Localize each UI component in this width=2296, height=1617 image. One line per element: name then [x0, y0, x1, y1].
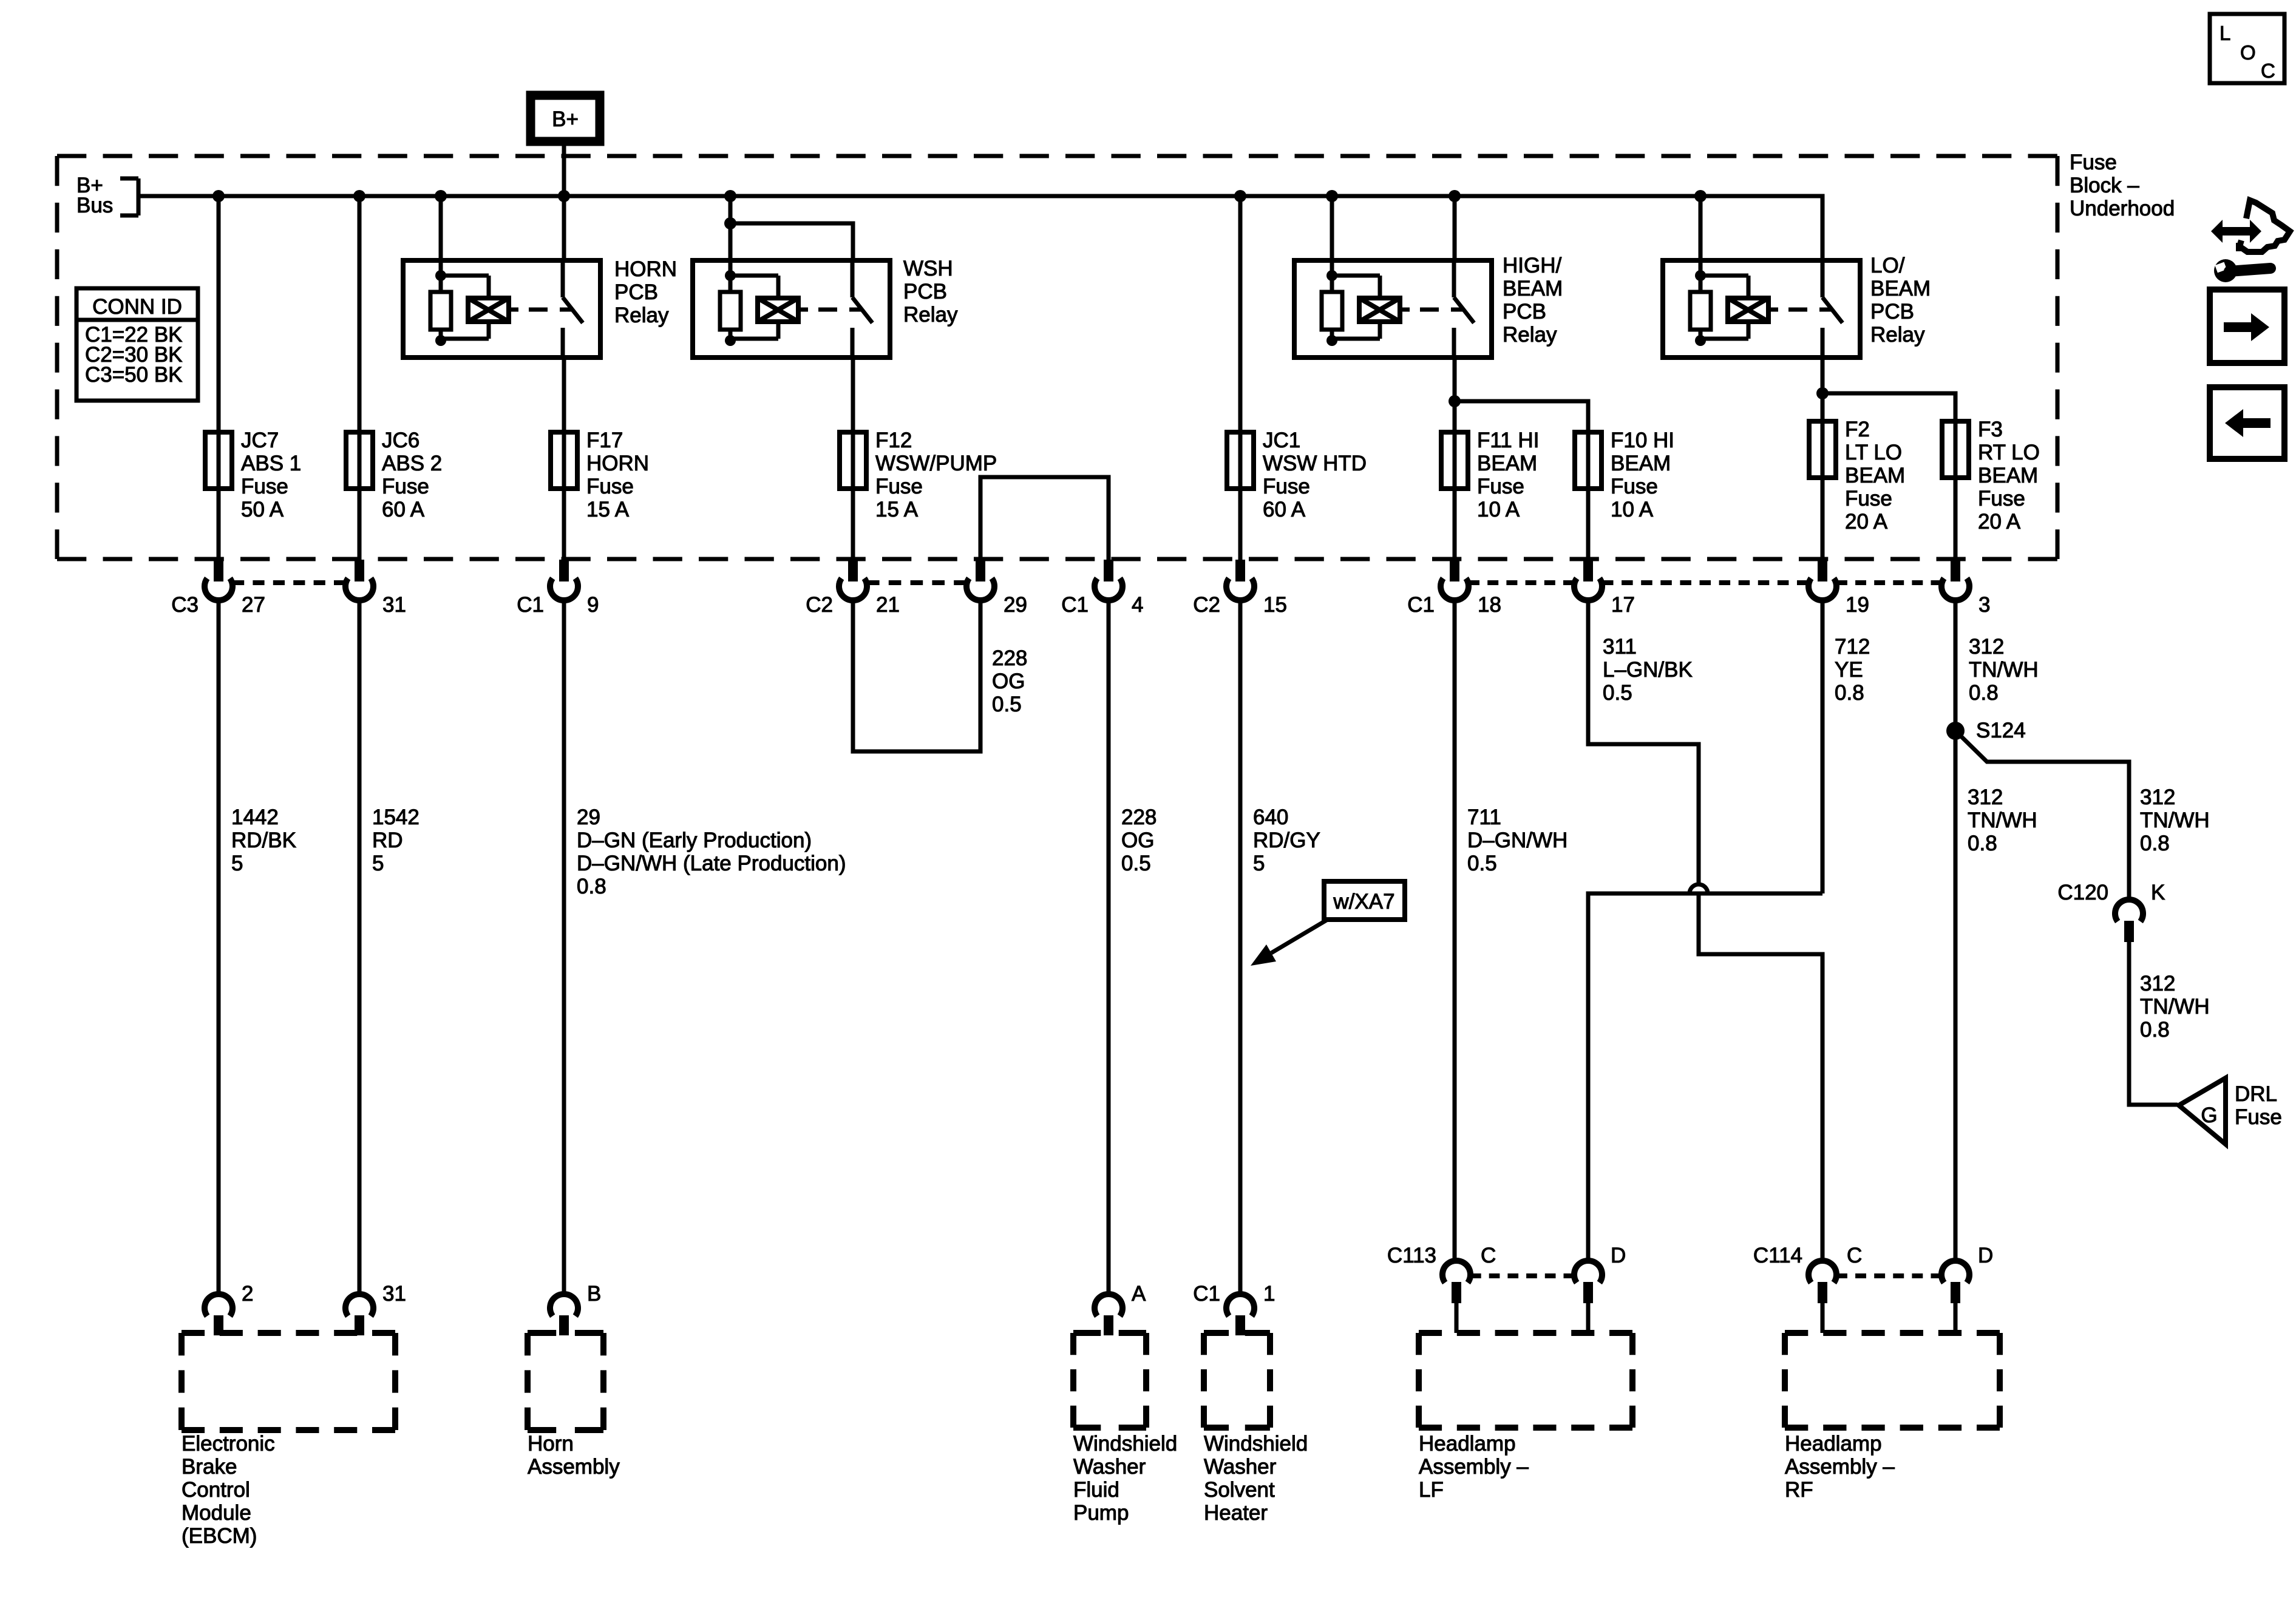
- CONN ID legend table: [76, 288, 198, 401]
- svg-text:Washer: Washer: [1204, 1455, 1277, 1479]
- svg-text:0.8: 0.8: [2140, 832, 2170, 855]
- svg-text:Heater: Heater: [1204, 1501, 1268, 1525]
- svg-text:0.5: 0.5: [1603, 681, 1632, 705]
- svg-text:1: 1: [1263, 1282, 1275, 1306]
- svg-text:0.5: 0.5: [1467, 852, 1497, 875]
- wire bus through JC6 fuse to pin 31: [358, 196, 362, 561]
- svg-text:312: 312: [1968, 785, 2003, 809]
- relay HORN PCB switch contacts: [561, 260, 565, 297]
- svg-text:JC6: JC6: [382, 429, 419, 452]
- svg-text:RD/GY: RD/GY: [1253, 829, 1320, 852]
- svg-text:Control: Control: [182, 1478, 250, 1502]
- component Headlamp Assembly RF (dashed box): [1785, 1330, 2000, 1336]
- svg-text:2: 2: [242, 1282, 253, 1306]
- wire HIGH BEAM relay switch through F11 fuse to pin 18: [1453, 358, 1457, 561]
- component Horn Assembly (dashed box): [528, 1330, 603, 1336]
- svg-text:Headlamp: Headlamp: [1785, 1432, 1882, 1456]
- svg-text:27: 27: [242, 593, 265, 617]
- svg-text:F17: F17: [586, 429, 623, 452]
- relay LO BEAM PCB coil winding: [1700, 274, 1748, 278]
- svg-text:HORN: HORN: [614, 257, 677, 281]
- svg-text:3: 3: [1978, 593, 1990, 617]
- wire bus to HORN relay coil: [439, 196, 443, 260]
- wire bus through JC7 fuse to pin 27: [217, 196, 221, 561]
- wire LO BEAM relay switch through F2 fuse to pin 19: [1821, 358, 1825, 561]
- svg-text:BEAM: BEAM: [1978, 464, 2038, 487]
- svg-text:OG: OG: [992, 670, 1025, 693]
- svg-text:312: 312: [2140, 785, 2175, 809]
- icon arrow left box: [2210, 387, 2284, 459]
- wire branch to F3 fuse: [1822, 393, 1955, 561]
- wire pin 31 to EBCM pin 31 (circuit 1542 RD): [358, 600, 362, 1294]
- svg-text:312: 312: [2140, 972, 2175, 995]
- svg-text:Horn: Horn: [528, 1432, 574, 1456]
- svg-text:60 A: 60 A: [1263, 498, 1306, 521]
- relay HORN PCB: outline: [403, 260, 600, 358]
- svg-text:311: 311: [1603, 635, 1637, 659]
- wire HORN relay switch through F17 fuse to pin 9: [562, 358, 566, 561]
- svg-text:60 A: 60 A: [382, 498, 425, 521]
- relay WSH PCB coil junction dots: [725, 270, 736, 281]
- svg-text:O: O: [2240, 41, 2256, 64]
- svg-text:D: D: [1978, 1244, 1993, 1267]
- option tag w/XA7: [1324, 881, 1405, 920]
- svg-text:BEAM: BEAM: [1845, 464, 1905, 487]
- component Windshield Washer Solvent Heater (dashed box): [1204, 1330, 1270, 1336]
- component Windshield Washer Fluid Pump (dashed box): [1073, 1330, 1146, 1336]
- wire pin 17 jog (circuit 311 L-GN/BK): [1588, 600, 1699, 886]
- junction LO BEAM output: [1816, 387, 1829, 399]
- wire bus to LO BEAM relay coil: [1699, 196, 1703, 260]
- svg-text:5: 5: [372, 852, 384, 875]
- connector pin 9 (C1): [559, 560, 569, 581]
- wire B+ bus (horizontal): [138, 196, 1822, 260]
- wire 311 hop over 712: [1690, 884, 1708, 893]
- relay WSH PCB switch contacts: [851, 260, 855, 297]
- svg-text:19: 19: [1846, 593, 1869, 617]
- svg-text:0.8: 0.8: [1968, 832, 1997, 855]
- wire pin 9 to horn assembly pin B (circuit 29 D-GN): [562, 600, 566, 1294]
- svg-text:D–GN/WH (Late Production): D–GN/WH (Late Production): [577, 852, 846, 875]
- svg-text:C2: C2: [1193, 593, 1220, 617]
- svg-text:C: C: [1481, 1244, 1496, 1267]
- svg-text:TN/WH: TN/WH: [1969, 658, 2039, 682]
- splice S124: [1946, 722, 1965, 740]
- svg-text:Brake: Brake: [182, 1455, 237, 1479]
- svg-text:PCB: PCB: [1870, 300, 1914, 324]
- relay HORN PCB coil winding: [441, 274, 489, 278]
- svg-text:228: 228: [992, 646, 1027, 670]
- component Headlamp Assembly LF (dashed box): [1419, 1330, 1632, 1336]
- svg-text:711: 711: [1467, 805, 1501, 829]
- connector pin 21 (C2): [848, 560, 858, 581]
- svg-text:15 A: 15 A: [875, 498, 919, 521]
- svg-text:RD: RD: [372, 829, 403, 852]
- svg-text:F12: F12: [875, 429, 912, 452]
- relay LO BEAM PCB switch contacts: [1821, 260, 1825, 297]
- svg-text:Module: Module: [182, 1501, 251, 1525]
- relay HIGH BEAM PCB coil junction dots: [1326, 270, 1337, 281]
- svg-text:20 A: 20 A: [1845, 510, 1888, 534]
- wire pin 27 to EBCM pin 2 (circuit 1442 RD/BK): [217, 600, 221, 1294]
- relay HIGH BEAM PCB switch contacts: [1452, 260, 1456, 297]
- svg-text:C1: C1: [1061, 593, 1089, 617]
- svg-text:ABS 1: ABS 1: [241, 452, 301, 475]
- svg-text:Fuse: Fuse: [1845, 487, 1892, 510]
- svg-text:B+: B+: [552, 107, 579, 131]
- wire branch to F10 fuse: [1455, 401, 1588, 561]
- relay HIGH BEAM PCB coil winding: [1332, 274, 1380, 278]
- svg-text:F3: F3: [1978, 418, 2003, 441]
- connector dashed bridge C3: [233, 580, 345, 585]
- svg-text:0.5: 0.5: [1121, 852, 1151, 875]
- wire pin 18 to LF headlamp pin C (circuit 711 D-GN/WH): [1453, 600, 1457, 1261]
- svg-text:C2: C2: [806, 593, 833, 617]
- svg-text:C1: C1: [517, 593, 544, 617]
- svg-text:Fluid: Fluid: [1073, 1478, 1119, 1502]
- svg-text:RD/BK: RD/BK: [231, 829, 296, 852]
- svg-text:Headlamp: Headlamp: [1419, 1432, 1516, 1456]
- connector pin 2 at component: [205, 1294, 233, 1316]
- svg-text:DRL: DRL: [2235, 1082, 2277, 1106]
- svg-text:9: 9: [587, 593, 599, 617]
- svg-text:OG: OG: [1121, 829, 1154, 852]
- svg-text:C113: C113: [1387, 1244, 1436, 1267]
- svg-text:Fuse: Fuse: [1263, 475, 1310, 498]
- wire bus through JC1 fuse to pin 15: [1238, 196, 1243, 561]
- svg-text:15: 15: [1263, 593, 1287, 617]
- wire pin 3 to RF headlamp pin D (circuit 312 TN/WH): [1954, 600, 1958, 1260]
- wire 712 horizontal to LF headlamp pin D: [1588, 893, 1822, 1261]
- relay LO BEAM PCB coil junction dots: [1695, 270, 1706, 281]
- svg-text:Bus: Bus: [76, 194, 113, 217]
- svg-text:(EBCM): (EBCM): [182, 1524, 257, 1548]
- svg-text:YE: YE: [1835, 658, 1863, 682]
- svg-text:WSH: WSH: [903, 257, 953, 280]
- JC6 ABS 2 fuse: [346, 432, 373, 489]
- svg-text:TN/WH: TN/WH: [1968, 808, 2037, 832]
- icon adjust/repair (arrows, pointer outline, wrench): [2211, 200, 2290, 282]
- connector pin 31 at component: [345, 1294, 373, 1316]
- svg-text:Fuse: Fuse: [382, 475, 429, 498]
- svg-text:10 A: 10 A: [1477, 498, 1520, 521]
- svg-text:HORN: HORN: [586, 452, 649, 475]
- svg-text:Underhood: Underhood: [2070, 197, 2175, 220]
- svg-text:CONN ID: CONN ID: [92, 295, 182, 319]
- svg-text:F11 HI: F11 HI: [1477, 429, 1539, 452]
- svg-text:Electronic: Electronic: [182, 1432, 275, 1456]
- connector pin 29 (same conn): [976, 560, 985, 581]
- svg-text:D–GN (Early Production): D–GN (Early Production): [577, 829, 812, 852]
- svg-text:C3: C3: [171, 593, 199, 617]
- svg-text:712: 712: [1835, 635, 1870, 659]
- svg-text:5: 5: [231, 852, 243, 875]
- svg-text:Windshield: Windshield: [1073, 1432, 1177, 1456]
- relay WSH PCB coil suppression resistor: [729, 260, 733, 341]
- svg-text:0.5: 0.5: [992, 693, 1022, 716]
- relay HORN PCB coil junction dots: [435, 270, 446, 281]
- svg-text:PCB: PCB: [1503, 300, 1546, 324]
- connector pin 27 (C3): [214, 560, 223, 581]
- wire bus to HIGH BEAM relay switch: [1453, 196, 1457, 260]
- svg-text:5: 5: [1253, 852, 1265, 875]
- svg-text:0.8: 0.8: [1835, 681, 1864, 705]
- svg-text:20 A: 20 A: [1978, 510, 2021, 534]
- svg-text:Relay: Relay: [1870, 323, 1925, 347]
- wire S124 branch to C120: [1955, 731, 2129, 900]
- svg-text:D–GN/WH: D–GN/WH: [1467, 829, 1567, 852]
- svg-text:TN/WH: TN/WH: [2140, 808, 2210, 832]
- connector pin 15 (C2): [1235, 560, 1245, 581]
- relay HIGH BEAM PCB coil suppression resistor: [1330, 260, 1334, 341]
- relay WSH PCB coil winding: [730, 274, 778, 278]
- svg-text:PCB: PCB: [614, 280, 658, 304]
- junction dots on B+ bus: [212, 190, 225, 202]
- connector pin 17 (same conn): [1583, 560, 1593, 581]
- icon arrow right box: [2210, 290, 2284, 363]
- svg-text:29: 29: [577, 805, 600, 829]
- svg-text:18: 18: [1478, 593, 1501, 617]
- connector pin B at component: [550, 1294, 578, 1316]
- svg-text:10 A: 10 A: [1611, 498, 1654, 521]
- svg-text:G: G: [2201, 1103, 2217, 1127]
- connector C120 pin K: [2115, 900, 2143, 921]
- svg-text:0.8: 0.8: [1969, 681, 1999, 705]
- svg-text:BEAM: BEAM: [1477, 452, 1537, 475]
- svg-text:HIGH/: HIGH/: [1503, 254, 1562, 277]
- relay HIGH BEAM PCB: outline: [1294, 260, 1492, 358]
- connector pin 3 (same conn): [1951, 560, 1960, 581]
- svg-text:29: 29: [1004, 593, 1027, 617]
- wire WSH relay switch feed branch: [730, 223, 853, 260]
- wire 311 to RF headlamp pin C: [1699, 893, 1822, 1261]
- svg-text:50 A: 50 A: [241, 498, 284, 521]
- option tag arrow: [1271, 920, 1326, 953]
- svg-text:Assembly –: Assembly –: [1785, 1455, 1895, 1479]
- svg-text:1542: 1542: [372, 805, 419, 829]
- wire C120 to DRL fuse (circuit 312 TN/WH): [2129, 942, 2178, 1105]
- connector pin A at component: [1095, 1294, 1123, 1316]
- svg-text:31: 31: [382, 1282, 406, 1306]
- wire bus to HIGH BEAM relay coil: [1330, 196, 1334, 260]
- svg-text:WSW/PUMP: WSW/PUMP: [875, 452, 997, 475]
- svg-text:LF: LF: [1419, 1478, 1444, 1502]
- B+ power feed symbol: [531, 95, 600, 141]
- JC7 ABS 1 fuse: [205, 432, 232, 489]
- fuse block underhood boundary (dashed): [57, 154, 2057, 158]
- connector dashed bridge C2: [867, 580, 966, 585]
- svg-text:B: B: [587, 1282, 601, 1306]
- wire external jumper pin 21 to pin 29 (circuit 228): [853, 600, 980, 751]
- JC1 WSW HTD fuse: [1227, 432, 1254, 489]
- svg-text:C1: C1: [1407, 593, 1435, 617]
- svg-text:Fuse: Fuse: [1477, 475, 1524, 498]
- svg-text:Fuse: Fuse: [875, 475, 923, 498]
- connector C113 pins C and D: [1442, 1261, 1470, 1283]
- svg-text:L–GN/BK: L–GN/BK: [1603, 658, 1693, 682]
- svg-text:F2: F2: [1845, 418, 1870, 441]
- svg-text:Fuse: Fuse: [586, 475, 634, 498]
- wire pin 4 to washer pump pin A (circuit 228 OG): [1107, 600, 1111, 1294]
- wire pin 29 to internal jog to pin 4: [980, 477, 1109, 561]
- svg-text:WSW HTD: WSW HTD: [1263, 452, 1367, 475]
- svg-text:TN/WH: TN/WH: [2140, 995, 2210, 1019]
- svg-text:C3=50 BK: C3=50 BK: [85, 363, 183, 387]
- svg-text:640: 640: [1253, 805, 1288, 829]
- svg-text:RF: RF: [1785, 1478, 1813, 1502]
- wire WSH relay switch through F12 fuse to pin 21: [851, 358, 855, 561]
- svg-text:1442: 1442: [231, 805, 279, 829]
- svg-text:4: 4: [1132, 593, 1143, 617]
- svg-text:Washer: Washer: [1073, 1455, 1146, 1479]
- relay HORN PCB actuation dashed link: [509, 308, 518, 312]
- off-page reference G: DRL Fuse: [2179, 1078, 2226, 1144]
- svg-text:BEAM: BEAM: [1611, 452, 1671, 475]
- svg-text:C114: C114: [1753, 1244, 1802, 1267]
- F12 WSW/PUMP fuse: [840, 432, 866, 489]
- relay HORN PCB coil suppression resistor: [439, 260, 443, 341]
- relay LO BEAM PCB coil suppression resistor: [1699, 260, 1703, 341]
- svg-text:17: 17: [1611, 593, 1635, 617]
- junction WSH switch feed: [724, 217, 736, 229]
- relay WSH PCB: outline: [693, 260, 890, 358]
- svg-text:K: K: [2151, 881, 2165, 904]
- svg-text:C: C: [2261, 59, 2275, 82]
- junction HIGH BEAM output: [1449, 395, 1461, 407]
- F3 RT LO BEAM fuse: [1942, 421, 1969, 478]
- svg-text:0.8: 0.8: [577, 875, 606, 898]
- relay LO BEAM PCB: outline: [1663, 260, 1860, 358]
- F2 LT LO BEAM fuse: [1809, 421, 1836, 478]
- svg-text:Fuse: Fuse: [1611, 475, 1658, 498]
- svg-text:A: A: [1132, 1282, 1146, 1306]
- connector C114 dashed bridge: [1836, 1273, 1941, 1278]
- F17 HORN fuse: [551, 432, 577, 489]
- svg-text:BEAM: BEAM: [1503, 277, 1563, 300]
- connector pin 4 (C1): [1104, 560, 1113, 581]
- component EBCM (dashed box): [182, 1330, 395, 1336]
- svg-text:312: 312: [1969, 635, 2004, 659]
- connector C114 pins C and D: [1809, 1261, 1836, 1283]
- svg-text:Relay: Relay: [1503, 323, 1557, 347]
- svg-text:D: D: [1611, 1244, 1626, 1267]
- svg-text:w/XA7: w/XA7: [1333, 890, 1394, 914]
- svg-text:LT LO: LT LO: [1845, 441, 1902, 464]
- svg-text:Assembly: Assembly: [528, 1455, 620, 1479]
- connector pin 18 (C1): [1450, 560, 1459, 581]
- svg-text:JC1: JC1: [1263, 429, 1300, 452]
- svg-text:PCB: PCB: [903, 280, 947, 303]
- svg-text:228: 228: [1121, 805, 1156, 829]
- svg-text:C1: C1: [1193, 1282, 1220, 1306]
- svg-text:21: 21: [876, 593, 900, 617]
- svg-text:Relay: Relay: [903, 303, 958, 327]
- connector pin 19 (same conn): [1818, 560, 1827, 581]
- wire bus to WSH relay coil: [729, 196, 733, 260]
- svg-text:Solvent: Solvent: [1204, 1478, 1275, 1502]
- svg-text:RT LO: RT LO: [1978, 441, 2040, 464]
- relay WSH PCB actuation dashed link: [798, 308, 808, 312]
- relay HIGH BEAM PCB actuation dashed link: [1400, 308, 1410, 312]
- wire pin 19 (circuit 712 YE): [1821, 600, 1825, 893]
- svg-text:C120: C120: [2057, 881, 2108, 904]
- relay LO BEAM PCB actuation dashed link: [1768, 308, 1778, 312]
- icon LOC box: [2210, 14, 2284, 83]
- connector pin 1 at component: [1226, 1294, 1254, 1316]
- svg-text:C: C: [1847, 1244, 1862, 1267]
- svg-text:Fuse: Fuse: [2235, 1105, 2282, 1129]
- F10 HI BEAM fuse: [1575, 432, 1601, 489]
- F11 HI BEAM fuse: [1441, 432, 1468, 489]
- svg-text:Pump: Pump: [1073, 1501, 1129, 1525]
- connector dashed bridge C1 (18/17/19/3): [1469, 580, 1574, 585]
- connector pin 31 (same conn): [355, 560, 364, 581]
- svg-text:F10 HI: F10 HI: [1611, 429, 1674, 452]
- svg-text:Windshield: Windshield: [1204, 1432, 1308, 1456]
- svg-text:JC7: JC7: [241, 429, 279, 452]
- connector C113 dashed bridge: [1470, 1273, 1574, 1278]
- svg-text:Block –: Block –: [2070, 174, 2139, 197]
- wire pin 15 to solvent heater pin 1 (circuit 640 RD/GY): [1238, 600, 1243, 1294]
- svg-text:LO/: LO/: [1870, 254, 1905, 277]
- svg-text:Relay: Relay: [614, 303, 669, 327]
- svg-text:31: 31: [382, 593, 406, 617]
- svg-text:BEAM: BEAM: [1870, 277, 1931, 300]
- svg-text:Assembly –: Assembly –: [1419, 1455, 1529, 1479]
- wire B+ box to bus to HORN relay switch: [562, 141, 566, 260]
- svg-text:ABS 2: ABS 2: [382, 452, 442, 475]
- svg-text:Fuse: Fuse: [241, 475, 288, 498]
- svg-text:L: L: [2220, 22, 2230, 44]
- svg-text:S124: S124: [1976, 719, 2026, 742]
- svg-text:15 A: 15 A: [586, 498, 630, 521]
- svg-text:Fuse: Fuse: [2070, 151, 2117, 174]
- svg-text:Fuse: Fuse: [1978, 487, 2025, 510]
- svg-text:0.8: 0.8: [2140, 1018, 2170, 1042]
